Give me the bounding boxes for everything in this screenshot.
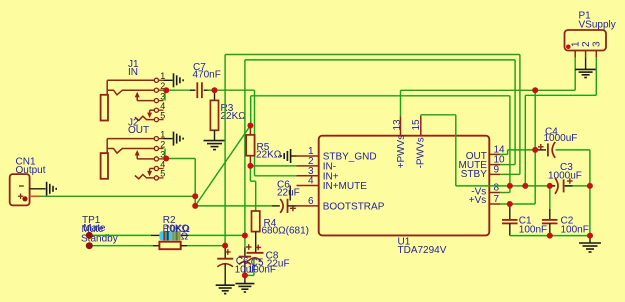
svg-text:1000uF: 1000uF (548, 170, 582, 181)
svg-text:1: 1 (160, 71, 165, 81)
svg-text:Ω: Ω (181, 232, 189, 243)
svg-text:TDA7294V: TDA7294V (398, 245, 447, 256)
svg-text:+Vs: +Vs (469, 195, 487, 206)
svg-text:15: 15 (411, 119, 422, 131)
svg-text:1: 1 (160, 129, 165, 139)
svg-text:22KΩ: 22KΩ (256, 150, 282, 161)
svg-text:1: 1 (570, 41, 581, 47)
svg-text:VSupply: VSupply (579, 20, 616, 31)
svg-text:8: 8 (494, 183, 500, 194)
svg-text:2: 2 (581, 41, 592, 47)
svg-text:3: 3 (592, 41, 603, 47)
svg-text:5: 5 (160, 110, 165, 120)
svg-text:22uF: 22uF (267, 259, 290, 270)
svg-text:IN: IN (128, 67, 138, 78)
svg-text:4: 4 (308, 176, 314, 187)
svg-text:7: 7 (494, 194, 500, 205)
svg-text:680Ω(681): 680Ω(681) (262, 226, 310, 237)
svg-text:22KΩ: 22KΩ (221, 111, 247, 122)
svg-text:13: 13 (392, 119, 403, 131)
svg-text:STBY: STBY (461, 169, 487, 180)
svg-text:470nF: 470nF (193, 69, 221, 80)
svg-text:IN+MUTE: IN+MUTE (323, 181, 368, 192)
svg-text:BOOTSTRAP: BOOTSTRAP (323, 202, 385, 213)
svg-text:5: 5 (160, 169, 165, 179)
svg-text:6: 6 (308, 196, 314, 207)
svg-text:1000uF: 1000uF (544, 133, 578, 144)
svg-text:22uF: 22uF (277, 187, 300, 198)
svg-text:2: 2 (160, 139, 165, 149)
svg-text:-PWVs: -PWVs (415, 137, 426, 168)
svg-text:OUT: OUT (128, 125, 149, 136)
svg-text:100nF: 100nF (561, 225, 589, 236)
svg-text:+PWVs: +PWVs (396, 135, 407, 169)
svg-text:9: 9 (494, 164, 500, 175)
svg-text:100nF: 100nF (519, 225, 547, 236)
